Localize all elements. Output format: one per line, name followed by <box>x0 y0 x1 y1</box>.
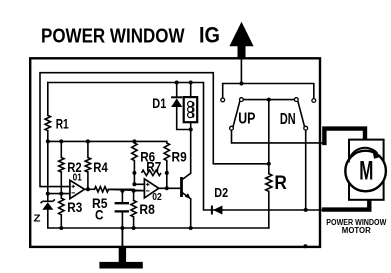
svg-text:UP: UP <box>238 110 255 127</box>
svg-text:Z: Z <box>34 213 42 225</box>
svg-text:MOTOR: MOTOR <box>342 225 372 235</box>
svg-text:POWER WINDOW: POWER WINDOW <box>41 25 185 48</box>
svg-text:DN: DN <box>280 111 296 128</box>
svg-text:R4: R4 <box>93 159 108 175</box>
svg-text:D2: D2 <box>214 186 228 200</box>
svg-text:R9: R9 <box>172 148 187 164</box>
svg-text:R: R <box>274 172 287 194</box>
svg-text:01: 01 <box>73 171 82 183</box>
svg-text:R3: R3 <box>67 199 82 215</box>
svg-text:C: C <box>95 208 104 223</box>
svg-text:R8: R8 <box>139 201 155 217</box>
svg-text:IG: IG <box>199 22 220 47</box>
svg-text:M: M <box>359 156 373 186</box>
svg-text:D1: D1 <box>152 96 166 111</box>
svg-text:R1: R1 <box>56 116 69 132</box>
svg-text:R7: R7 <box>146 159 161 175</box>
